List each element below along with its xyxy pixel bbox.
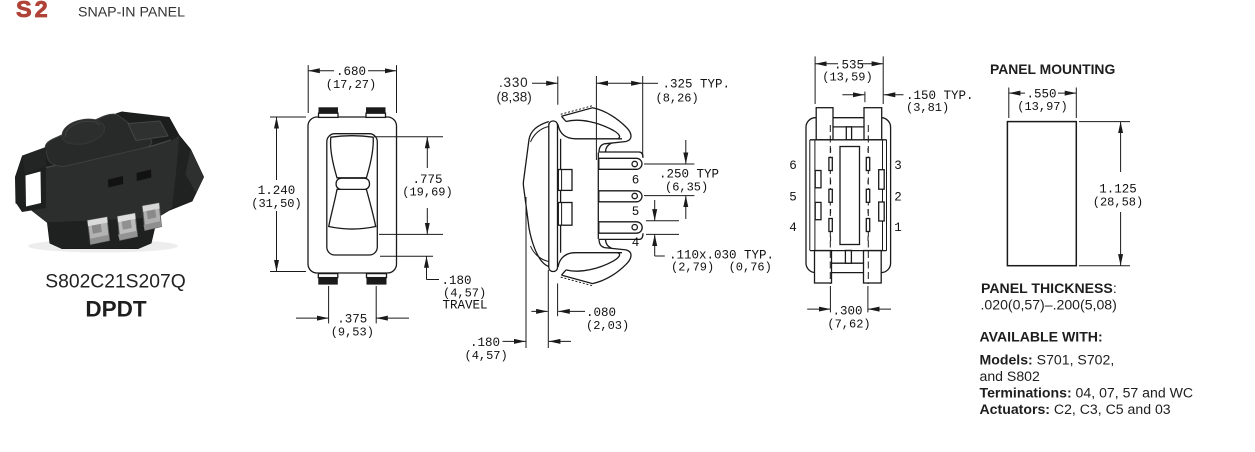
photo: rocker paddle with raised bump [45, 114, 151, 166]
front view: rocker upper half [331, 136, 374, 178]
terminations line [980, 384, 1194, 400]
back view: right inner wall [883, 140, 887, 251]
back view: inner slot bottom ticks [831, 237, 868, 242]
svg-text:AVAILABLE WITH:: AVAILABLE WITH: [980, 328, 1103, 344]
svg-text:1.240: 1.240 [258, 184, 296, 198]
side view: upper spring rib [558, 170, 572, 191]
front view: top mounting tabs [319, 107, 386, 117]
front view: outer body rectangle [308, 117, 397, 273]
svg-text:1.125: 1.125 [1099, 182, 1137, 196]
panel mounting heading [990, 61, 1115, 77]
product photo: shadow [28, 240, 178, 253]
front view: rocker pivot band [336, 178, 369, 189]
side view: body rear face [597, 153, 599, 239]
front view: bezel opening [327, 134, 378, 255]
back view: dashed centerlines [830, 125, 868, 284]
svg-text:(13,59): (13,59) [822, 71, 872, 85]
back view: cavity top line [810, 139, 887, 141]
back view: inner terminal slots left column [829, 148, 832, 232]
svg-text:.180: .180 [470, 336, 500, 350]
photo: metal terminals [88, 203, 162, 245]
dimension .325 TYP. (8,26) side view top right [596, 76, 730, 160]
back view: terminal number labels 6 5 4 [789, 159, 797, 235]
side view: rocker profile [523, 122, 548, 267]
svg-text:4: 4 [632, 236, 640, 250]
dimension .250 TYP (6,35) terminal spacing [644, 140, 719, 219]
photo: front face slots [108, 170, 151, 188]
svg-text:.080: .080 [586, 306, 616, 320]
svg-text:Actuators: C2, C3, C5 and 03: Actuators: C2, C3, C5 and 03 [980, 401, 1171, 417]
photo: left snap clip with white gap [16, 148, 47, 213]
photo: bottom frame [48, 218, 158, 249]
svg-text:(4,57): (4,57) [465, 349, 508, 363]
svg-text:(6,35): (6,35) [665, 180, 708, 194]
svg-text:(8,26): (8,26) [656, 92, 699, 106]
back view: top left ear [816, 108, 833, 140]
dimension .300 (7,62) back view bottom [807, 286, 891, 332]
svg-text:.375: .375 [337, 313, 367, 327]
dimension .680 (17,27) top of front view [308, 65, 396, 113]
back view: bottom left leg [815, 251, 832, 284]
front view: bottom mounting tabs [318, 274, 386, 285]
side view: body flange bottom corner [558, 253, 622, 267]
part number label S802C21S207Q [45, 272, 185, 293]
svg-text:5: 5 [632, 205, 640, 219]
svg-text:DPDT: DPDT [85, 297, 147, 322]
header title SNAP-IN PANEL [78, 5, 185, 21]
available with heading [980, 328, 1103, 344]
svg-text:SNAP-IN PANEL: SNAP-IN PANEL [78, 5, 185, 21]
back view: bottom right leg [864, 251, 882, 284]
svg-text:and S802: and S802 [980, 368, 1041, 384]
svg-text:PANEL THICKNESS:: PANEL THICKNESS: [981, 280, 1117, 296]
dimension .110x.030 TYP. terminal size [646, 200, 774, 275]
back view: top right ear [864, 108, 882, 140]
svg-text:(8,38): (8,38) [497, 90, 532, 105]
front view: rocker lower half [329, 189, 376, 229]
dimension .775 (19,69) right of front view rocker [374, 137, 453, 235]
svg-text:Terminations: 04, 07, 57 and W: Terminations: 04, 07, 57 and WC [980, 384, 1194, 400]
svg-text:2: 2 [894, 190, 902, 204]
svg-text:5: 5 [789, 190, 797, 204]
dimension .180 (4,57) bezel depth [465, 197, 572, 363]
svg-text:.300: .300 [832, 304, 862, 318]
side view: terminal 5 [599, 191, 642, 219]
back view: bottom bridge [832, 250, 864, 263]
models line [980, 351, 1115, 384]
panel thickness text [981, 280, 1117, 313]
dimension 1.240 (31,50) left of front view [251, 117, 306, 272]
dimension .535 (13,59) back view top [815, 56, 883, 104]
side view: rocker shoulder arcs [531, 127, 549, 262]
photo: recessed panel on top right [128, 121, 168, 141]
side view: top shelf [599, 152, 643, 158]
actuators line [980, 401, 1171, 417]
svg-text:TRAVEL: TRAVEL [443, 299, 488, 313]
side view: terminal 4 [599, 222, 642, 250]
part type label DPDT [85, 297, 147, 322]
svg-text:1: 1 [894, 221, 902, 235]
side view: bottom snap clip [561, 239, 631, 286]
svg-text:(9,53): (9,53) [331, 326, 374, 340]
svg-text:.325 TYP.: .325 TYP. [663, 78, 731, 92]
svg-text:(7,62): (7,62) [827, 318, 870, 332]
dimension .375 (9,53) bottom of front view [296, 286, 409, 340]
dimension .150 TYP. (3,81) ear width [842, 89, 973, 115]
svg-text:Models: S701, S702,: Models: S701, S702, [980, 351, 1115, 367]
dimension .550 (13,97) cutout width [1009, 87, 1077, 118]
svg-text:.330: .330 [499, 75, 528, 90]
product photo: rocker switch body silhouette [16, 112, 204, 249]
side view: body front face line [560, 139, 562, 253]
dimension .080 (2,03) panel gap [531, 270, 629, 348]
svg-text:(3,81): (3,81) [906, 101, 949, 115]
side view: body flange top corner [558, 125, 622, 139]
side view: top snap clip [561, 106, 631, 153]
svg-text:3: 3 [894, 159, 902, 173]
side view: bezel frame [549, 121, 558, 272]
svg-text:S2: S2 [16, 0, 51, 22]
svg-text:(31,50): (31,50) [251, 197, 301, 211]
svg-text:(13,97): (13,97) [1017, 100, 1067, 114]
svg-text:6: 6 [789, 159, 797, 173]
back view: left inner wall [810, 140, 815, 251]
svg-text:.250 TYP: .250 TYP [659, 167, 719, 181]
svg-text:(2,79) (0,76): (2,79) (0,76) [671, 261, 772, 275]
svg-text:6: 6 [632, 173, 640, 187]
svg-text:S802C21S207Q: S802C21S207Q [45, 272, 185, 293]
back view: side wall slots left [815, 171, 821, 220]
svg-text:(28,58): (28,58) [1093, 196, 1143, 210]
back view: top bridge [833, 127, 864, 140]
side view: bottom shelf [599, 233, 643, 239]
side view: terminal 6 [599, 158, 642, 187]
dimension 1.125 (28,58) cutout height [1079, 122, 1143, 266]
back view: cavity bottom line [810, 250, 887, 252]
svg-text:.020(0,57)–.200(5,08): .020(0,57)–.200(5,08) [981, 296, 1117, 312]
back view: outer body [806, 118, 891, 273]
back view: inner terminal slots right column [866, 148, 869, 232]
svg-text:(17,27): (17,27) [326, 78, 376, 92]
side view: lower spring rib [558, 203, 572, 226]
back view: side wall slots right [879, 170, 885, 221]
svg-text:(2,03): (2,03) [586, 319, 629, 333]
dimension .330 (8,38) side view top left [497, 75, 558, 105]
dimension .180 (4,57) TRAVEL [380, 256, 488, 312]
header logo S2 [16, 0, 51, 22]
back view: terminal number labels 3 2 1 [894, 159, 902, 235]
svg-text:4: 4 [789, 221, 797, 235]
photo: right snap clip wing [172, 139, 204, 209]
svg-text:(19,69): (19,69) [402, 186, 452, 200]
svg-text:PANEL MOUNTING: PANEL MOUNTING [990, 61, 1115, 77]
panel mounting cutout rectangle [1007, 122, 1076, 266]
back view: central slot [840, 147, 860, 245]
